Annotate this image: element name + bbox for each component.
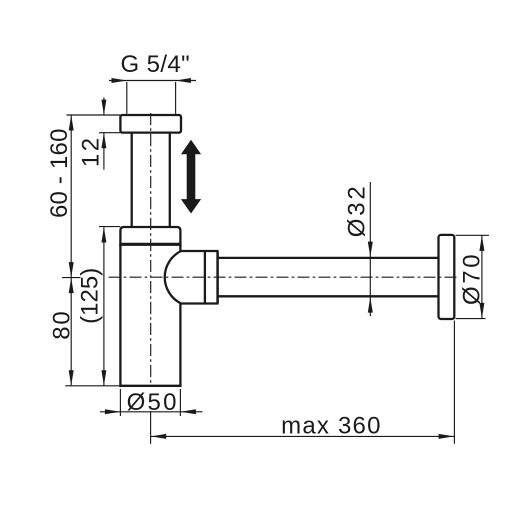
adjustability thick arrow bbox=[181, 140, 201, 214]
O70 bottom arrowhead bbox=[479, 303, 484, 318]
tailpipe tube right wall bbox=[169, 133, 171, 227]
compression ring left edge bbox=[204, 251, 206, 304]
60-160 bottom arrowhead bbox=[69, 262, 74, 277]
O32 down arrowhead bbox=[368, 242, 373, 257]
12 dimension line upper bbox=[103, 97, 105, 114]
G 5/4 left extension line bbox=[126, 82, 128, 114]
flange bottom extension line bbox=[99, 132, 120, 134]
O50 left extension line bbox=[119, 389, 121, 416]
O70 bottom extension line bbox=[456, 318, 486, 320]
O32 up arrowhead bbox=[368, 297, 373, 312]
G5/4 right arrowhead bbox=[176, 78, 191, 83]
nut bottom thick line bbox=[119, 243, 181, 246]
(125) bottom arrowhead bbox=[101, 370, 106, 385]
O70 dimension line bbox=[481, 236, 483, 319]
centerline tick left bbox=[62, 277, 81, 279]
(125) dimension line bbox=[103, 227, 105, 386]
max 360 left extension (centerline continuation) bbox=[150, 411, 152, 444]
svg-text:80: 80 bbox=[49, 309, 76, 339]
outlet pipe top bbox=[219, 257, 439, 259]
80 bottom arrowhead bbox=[69, 370, 74, 385]
flange top extension line bbox=[67, 114, 121, 116]
O50 right arrowhead bbox=[181, 409, 196, 414]
vertical centerline bbox=[150, 113, 152, 386]
elbow dome arc bbox=[165, 251, 181, 304]
G 5/4 dimension line bbox=[109, 80, 196, 82]
12 dimension line lower bbox=[103, 133, 105, 170]
top flange bbox=[120, 115, 181, 133]
60-160 top arrowhead bbox=[69, 115, 74, 130]
horizontal centerline bbox=[109, 276, 457, 278]
(125) top arrowhead bbox=[101, 227, 106, 242]
max360 right arrowhead bbox=[439, 434, 454, 439]
svg-text:60 - 160: 60 - 160 bbox=[46, 128, 73, 218]
80 top arrowhead bbox=[69, 278, 74, 293]
cup body right wall lower bbox=[179, 304, 181, 387]
outlet pipe bottom bbox=[219, 295, 439, 297]
wall flange bbox=[439, 235, 455, 319]
svg-text:max 360: max 360 bbox=[281, 412, 381, 439]
tailpipe tube left wall bbox=[131, 133, 133, 227]
svg-text:(125): (125) bbox=[77, 268, 104, 324]
O70 top extension line bbox=[456, 234, 490, 236]
max 360 dimension line bbox=[151, 435, 455, 437]
O50 dimension line bbox=[100, 411, 203, 413]
O50 left arrowhead bbox=[105, 409, 120, 414]
nut top extension line bbox=[99, 226, 120, 228]
cup body bottom bbox=[119, 385, 181, 387]
cup body left wall bbox=[119, 244, 121, 387]
svg-text:Ø32: Ø32 bbox=[344, 184, 371, 238]
elbow dome top edge bbox=[181, 250, 219, 252]
elbow dome bottom edge bbox=[181, 302, 219, 304]
svg-text:Ø70: Ø70 bbox=[459, 252, 486, 305]
compression ring right edge bbox=[216, 251, 219, 304]
60-160 / 80 dimension line bbox=[70, 115, 72, 386]
O70 top arrowhead bbox=[479, 236, 484, 251]
svg-text:Ø50: Ø50 bbox=[127, 389, 179, 416]
svg-text:12: 12 bbox=[78, 135, 105, 167]
svg-text:G 5/4": G 5/4" bbox=[120, 51, 190, 78]
max360 left arrowhead bbox=[151, 434, 166, 439]
G5/4 left arrowhead bbox=[112, 78, 127, 83]
G 5/4 right extension line bbox=[175, 82, 177, 114]
12 lower arrowhead bbox=[101, 133, 106, 148]
union nut bbox=[120, 227, 180, 247]
body bottom extension line bbox=[65, 385, 119, 387]
O50 right extension line bbox=[179, 389, 181, 416]
12 upper arrowhead bbox=[101, 100, 106, 115]
max 360 right extension line bbox=[453, 321, 455, 444]
cup body right wall upper bbox=[179, 244, 181, 251]
O32 leader line bbox=[369, 182, 371, 316]
